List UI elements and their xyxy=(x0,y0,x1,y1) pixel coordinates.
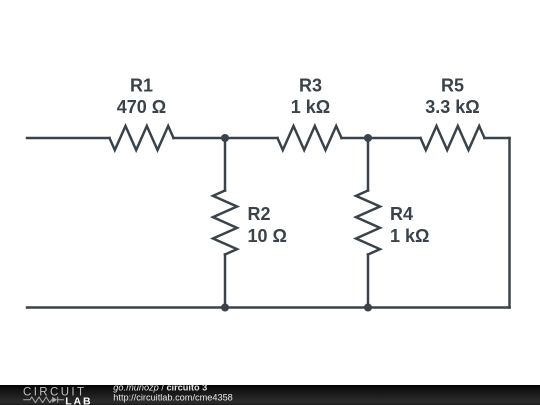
node A junction dot bottom xyxy=(221,304,229,312)
svg-text:go.munozp / circuito 3: go.munozp / circuito 3 xyxy=(113,383,207,393)
logo resistor symbol xyxy=(23,397,52,403)
svg-text:1 kΩ: 1 kΩ xyxy=(390,226,429,246)
svg-text:10 Ω: 10 Ω xyxy=(248,226,287,246)
svg-text:R5: R5 xyxy=(441,76,464,96)
wire R1 to node A xyxy=(174,137,226,140)
svg-text:R1: R1 xyxy=(130,76,153,96)
svg-text:1 kΩ: 1 kΩ xyxy=(291,97,330,117)
wire bottom rail xyxy=(27,306,510,309)
wire R5 to top-right corner xyxy=(485,137,510,140)
wire R2 top lead xyxy=(224,138,227,191)
wire R3 to node B xyxy=(342,137,369,140)
wire node A to R3 xyxy=(225,137,278,140)
svg-text:R4: R4 xyxy=(390,204,413,224)
resistor R1 xyxy=(110,126,174,150)
svg-text:R2: R2 xyxy=(248,204,271,224)
node B junction dot top xyxy=(364,134,372,142)
wire R2 bottom lead xyxy=(224,255,227,308)
logo diode symbol xyxy=(52,397,57,403)
wire top-left lead xyxy=(27,137,110,140)
resistor R5 xyxy=(421,126,485,150)
resistor R2 xyxy=(213,191,237,255)
svg-text:3.3 kΩ: 3.3 kΩ xyxy=(425,97,479,117)
svg-text:LAB: LAB xyxy=(65,395,92,405)
resistor R3 xyxy=(278,126,342,150)
wire R4 bottom lead xyxy=(367,255,370,308)
svg-text:R3: R3 xyxy=(299,76,322,96)
resistor R4 xyxy=(356,191,380,255)
node B junction dot bottom xyxy=(364,304,372,312)
svg-text:470 Ω: 470 Ω xyxy=(117,97,166,117)
node A junction dot top xyxy=(221,134,229,142)
svg-text:http://circuitlab.com/cme4358: http://circuitlab.com/cme4358 xyxy=(113,393,233,403)
wire R4 top lead xyxy=(367,138,370,191)
wire node B to R5 xyxy=(368,137,421,140)
wire right vertical xyxy=(508,138,511,308)
